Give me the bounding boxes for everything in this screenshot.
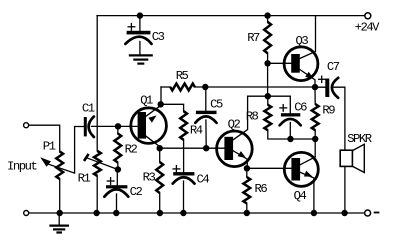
svg-text:R6: R6 (255, 182, 268, 196)
svg-text:R5: R5 (176, 69, 189, 83)
svg-text:+24V: +24V (355, 20, 381, 34)
svg-text:SPKR: SPKR (347, 132, 372, 146)
svg-text:R1: R1 (78, 172, 91, 186)
svg-text:C5: C5 (210, 98, 223, 112)
svg-text:C7: C7 (327, 60, 340, 74)
svg-text:R8: R8 (246, 110, 259, 124)
svg-text:Q3: Q3 (296, 34, 309, 48)
svg-text:C6: C6 (294, 101, 307, 115)
svg-text:C1: C1 (82, 102, 95, 116)
svg-text:P1: P1 (43, 139, 56, 153)
svg-text:C4: C4 (197, 172, 210, 186)
svg-text:C3: C3 (152, 30, 165, 44)
svg-text:C2: C2 (130, 185, 143, 199)
svg-text:R3: R3 (143, 170, 156, 184)
svg-text:Q4: Q4 (294, 189, 307, 203)
svg-text:R9: R9 (322, 104, 335, 118)
svg-text:Input: Input (7, 160, 37, 174)
svg-text:R2: R2 (125, 142, 138, 156)
svg-text:R7: R7 (247, 31, 260, 45)
svg-text:Q1: Q1 (140, 94, 153, 108)
svg-text:Q2: Q2 (228, 117, 241, 131)
svg-text:R4: R4 (190, 124, 203, 138)
